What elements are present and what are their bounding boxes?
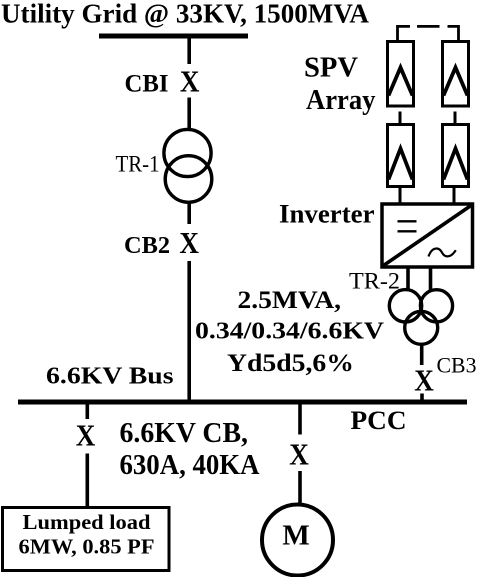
wire: inter-row stub right xyxy=(454,112,457,126)
svg-text:TR-2: TR-2 xyxy=(349,269,400,295)
svg-text:CBI: CBI xyxy=(125,71,169,98)
PV panel 2 (top-right) xyxy=(443,42,469,107)
svg-text:CB2: CB2 xyxy=(124,233,170,259)
svg-text:X: X xyxy=(76,419,96,453)
wire: PV to inverter left xyxy=(399,187,402,206)
svg-text:SPV: SPV xyxy=(304,52,358,84)
wire: bus to load breaker xyxy=(86,404,90,419)
svg-text:6.6KV Bus: 6.6KV Bus xyxy=(46,363,174,390)
bus: main 6.6KV PCC bus bar xyxy=(18,400,467,405)
PV panel 4 (bottom-right) xyxy=(443,125,469,187)
wire: CB3 to PCC bus xyxy=(420,394,424,401)
wire: bus to motor breaker xyxy=(298,404,302,435)
svg-text:X: X xyxy=(289,437,309,471)
label lumped load text xyxy=(19,510,155,559)
svg-text:X: X xyxy=(180,65,200,99)
wire: inverter to TR-2 left xyxy=(406,266,410,291)
svg-text:0.34/0.34/6.6KV: 0.34/0.34/6.6KV xyxy=(195,319,385,345)
PV panel 1 (top-left) xyxy=(388,42,414,107)
svg-text:PCC: PCC xyxy=(351,406,407,435)
label 6.6KV CB specs xyxy=(120,418,261,481)
wire: inverter to TR-2 right xyxy=(429,266,433,291)
label SPV Array xyxy=(304,52,376,117)
svg-text:TR-1: TR-1 xyxy=(116,152,160,178)
label 2.5MVA transformer specs xyxy=(195,287,385,377)
wire: TR-1 to CB2 xyxy=(187,202,191,224)
motor M circle xyxy=(262,505,333,576)
transformer TR-2 (three winding) xyxy=(389,290,452,345)
svg-text:X: X xyxy=(179,226,199,260)
svg-text:630A, 40KA: 630A, 40KA xyxy=(120,450,261,481)
svg-text:Inverter: Inverter xyxy=(279,200,375,229)
svg-text:Yd5d5,6%: Yd5d5,6% xyxy=(227,350,354,377)
bus: utility grid bus bar xyxy=(99,34,248,39)
PV panel 3 (bottom-left) xyxy=(388,125,414,187)
wire: CB1 to TR-1 xyxy=(187,98,191,132)
svg-text:6MW, 0.85 PF: 6MW, 0.85 PF xyxy=(19,535,155,559)
svg-text:Array: Array xyxy=(306,84,376,116)
wire: grid bus to CB1 xyxy=(187,38,191,64)
transformer TR-1 xyxy=(164,129,212,202)
svg-text:X: X xyxy=(414,364,434,398)
wire: PV to inverter right xyxy=(453,187,456,206)
wire: motor breaker to motor xyxy=(298,471,302,506)
svg-text:2.5MVA,: 2.5MVA, xyxy=(238,287,342,314)
lumped load box xyxy=(3,508,170,571)
wire: inter-row stub left xyxy=(399,112,402,126)
wire: load breaker to lumped load xyxy=(86,454,90,509)
svg-text:6.6KV CB,: 6.6KV CB, xyxy=(120,418,249,449)
svg-text:M: M xyxy=(282,520,309,552)
svg-text:Utility Grid @ 33KV, 1500MVA: Utility Grid @ 33KV, 1500MVA xyxy=(1,0,369,29)
wire: CB2 to 6.6KV bus xyxy=(187,261,191,400)
wire: TR-2 to CB3 xyxy=(420,345,424,365)
inverter U1 box xyxy=(382,204,473,267)
svg-text:Lumped load: Lumped load xyxy=(23,510,151,534)
wire: dashed PV string top link xyxy=(398,26,459,42)
svg-text:CB3: CB3 xyxy=(437,353,477,378)
